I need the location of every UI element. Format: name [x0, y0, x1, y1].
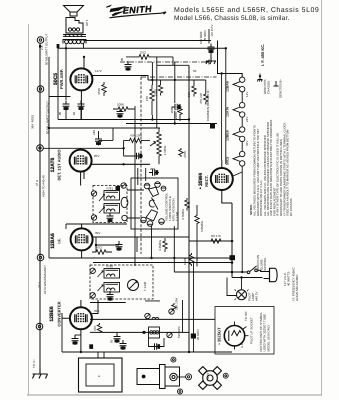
- svg-text:85V: 85V: [94, 154, 99, 158]
- svg-text:.05 600V: .05 600V: [203, 30, 207, 42]
- converter plate box top: [90, 301, 160, 303]
- resistor row y106 horizontal: [113, 107, 135, 111]
- wire x152: [151, 62, 153, 120]
- legend ground chassis: [257, 74, 262, 82]
- diag arrow c: [98, 271, 104, 277]
- blob on power line: [230, 255, 236, 260]
- svg-text:250: 250: [150, 167, 155, 171]
- notes block: [249, 120, 293, 216]
- bottom page edge: [27, 394, 322, 396]
- svg-text:4.7MEG: 4.7MEG: [181, 208, 185, 220]
- wire x123 down: [124, 140, 138, 156]
- transformer core: [63, 35, 86, 37]
- resistor 47K right vertical: [195, 213, 199, 228]
- svg-text:Y781: Y781: [106, 187, 113, 191]
- pin lead 12BA6 right: [93, 236, 189, 238]
- svg-text:37 A: 37 A: [35, 180, 39, 186]
- mounting screw a: [171, 357, 176, 362]
- svg-text:24V: 24V: [245, 117, 249, 122]
- resistor 150 vertical: [150, 85, 154, 115]
- pin lead 12BE6 left: [62, 313, 70, 318]
- svg-text:12BE6: 12BE6: [226, 130, 230, 141]
- pilot lamp: [235, 290, 249, 301]
- wire loop stub: [98, 352, 104, 358]
- svg-text:2D 117V: 2D 117V: [210, 25, 214, 36]
- resistor on B+ riser: [189, 253, 193, 266]
- junction osc: [142, 331, 145, 334]
- svg-text:100K: 100K: [117, 103, 124, 107]
- junction y148: [122, 147, 124, 149]
- wire y266: [93, 262, 232, 264]
- resistor 3.3meg vertical: [163, 238, 167, 252]
- wire fil feed: [222, 74, 243, 78]
- capacitor osc a: [114, 333, 121, 343]
- shield can: [121, 197, 128, 207]
- resistor B+ horizontal: [211, 239, 221, 243]
- pin lead 50C5 top: [83, 57, 85, 69]
- svg-text:50C5: 50C5: [226, 157, 230, 165]
- wire y96: [49, 96, 70, 98]
- svg-text:T-1340: T-1340: [143, 281, 147, 291]
- svg-text:22K 10%: 22K 10%: [175, 297, 179, 310]
- capacitor osc b: [151, 343, 161, 349]
- svg-text:470K: 470K: [183, 151, 187, 158]
- pin lead 50C5 bottom: [80, 90, 82, 119]
- trimmer tune a: [145, 313, 150, 318]
- wire bottom bus second: [126, 123, 217, 125]
- tube 12BE6: [70, 307, 92, 329]
- wire cap to gnd: [210, 54, 212, 59]
- ground top right: [206, 58, 216, 64]
- resistor 4.7K vertical: [158, 80, 162, 96]
- svg-text:384 400Ω: 384 400Ω: [31, 114, 35, 129]
- pin lead 12BE6 bottom: [80, 330, 82, 352]
- resistor 4.7meg vertical: [185, 198, 189, 211]
- note text in box: [259, 312, 270, 352]
- svg-text:40 WATTS: 40 WATTS: [287, 272, 291, 286]
- speaker: [64, 6, 84, 17]
- svg-text:12AT6: 12AT6: [50, 157, 56, 172]
- svg-text:TO 4 •: TO 4 •: [32, 360, 36, 369]
- tube socket 35Z5GT: [224, 326, 244, 346]
- wire x174 lower: [173, 226, 175, 272]
- resistor 47K horizontal: [124, 138, 150, 142]
- wire screw link: [177, 376, 185, 378]
- terminal phono: [37, 145, 44, 152]
- wire x137 down: [138, 168, 146, 185]
- volume control wedges: [146, 187, 159, 221]
- dash-dot line AVC: [141, 76, 217, 78]
- svg-text:117V: 117V: [95, 69, 102, 73]
- wire can to pot: [127, 190, 144, 218]
- volume control C curve: [149, 200, 154, 207]
- resistor 27 ohm: [126, 55, 173, 60]
- svg-text:150: 150: [145, 96, 149, 101]
- wire x182: [182, 300, 184, 332]
- mounting screw b: [178, 389, 183, 394]
- svg-text:DET. 1ST AUDIO: DET. 1ST AUDIO: [57, 150, 62, 181]
- wire y80: [148, 79, 206, 81]
- svg-text:Models L565E and L565R, Chassi: Models L565E and L565R, Chassis 5L09: [174, 6, 319, 14]
- junction y164: [122, 163, 124, 165]
- svg-text:PILOT: PILOT: [206, 372, 210, 381]
- coil T1 secondary: [104, 283, 120, 293]
- wire terminal 148 row: [43, 147, 123, 149]
- wire y65: [157, 57, 189, 65]
- svg-text:12BA6: 12BA6: [50, 233, 56, 249]
- svg-text:27Ω: 27Ω: [140, 51, 146, 55]
- trimmer T2 bottom: [91, 215, 96, 220]
- wire x62: [61, 318, 63, 352]
- svg-text:100 MMF: 100 MMF: [199, 31, 203, 44]
- svg-text:DENOTES B−: DENOTES B−: [279, 79, 283, 98]
- svg-text:50 MIL/WATT OUTPUT: 50 MIL/WATT OUTPUT: [45, 34, 49, 65]
- pin lead 35W4 top: [221, 160, 223, 168]
- trimmer T1 a: [90, 268, 95, 273]
- svg-text:PILOT LP. SOCKET: PILOT LP. SOCKET: [250, 317, 254, 344]
- power vertical wire: [231, 203, 233, 278]
- label 35W4 RECT.: [198, 173, 209, 189]
- terminal output hi: [37, 37, 44, 44]
- filament chain: [233, 77, 245, 272]
- resistor 15K vertical: [192, 80, 196, 97]
- wire x83 speaker lead: [83, 44, 85, 49]
- wire x174: [174, 62, 176, 124]
- svg-text:• 35Z5GT: • 35Z5GT: [217, 327, 222, 345]
- IF can T2 dashed box: [93, 186, 127, 223]
- pin lead 12AT6 bottom: [81, 170, 84, 186]
- svg-text:#184 TO #40-40: #184 TO #40-40: [42, 175, 46, 197]
- svg-text:CHASSIS: CHASSIS: [267, 81, 271, 94]
- junction x49 y128: [48, 127, 50, 129]
- capacitor osc c: [120, 340, 127, 350]
- capacitor output 1: [63, 101, 70, 111]
- svg-text:47Ω: 47Ω: [96, 246, 102, 250]
- volume control resistor: [150, 128, 161, 164]
- electrolytic blob 2: [191, 334, 196, 339]
- trimmer osc pad: [167, 332, 172, 337]
- junction dots bus: [151, 118, 153, 120]
- svg-text:1000: 1000: [183, 258, 187, 265]
- junction dots y352: [80, 351, 82, 353]
- wire x157: [156, 57, 158, 128]
- title text: [174, 6, 319, 22]
- capacitor line cap: [208, 44, 215, 54]
- filament squiggle: [229, 331, 241, 342]
- loop antenna outer: [79, 358, 123, 392]
- volume control assembly screws: [141, 182, 166, 227]
- resistor 470K vertical: [102, 82, 106, 96]
- wire x217 down: [218, 41, 222, 74]
- svg-text:Y780: Y780: [106, 265, 113, 269]
- svg-text:47K: 47K: [93, 326, 97, 331]
- svg-text:99V: 99V: [95, 231, 100, 235]
- svg-text:Model L566, Chassis 5L08, is s: Model L566, Chassis 5L08, is similar.: [174, 15, 290, 22]
- wire x193: [193, 263, 195, 353]
- capacitor x155 y246: [151, 226, 153, 258]
- 35Z5GT note box: [215, 307, 274, 355]
- svg-text:56: 56: [110, 339, 114, 343]
- wire x49 bus: [48, 57, 50, 258]
- wire x197: [196, 205, 198, 267]
- pin lead 12AT6 right: [91, 163, 150, 165]
- AC plug: [264, 268, 278, 281]
- mounting screw c: [186, 374, 192, 380]
- svg-text:3.3MEG: 3.3MEG: [158, 239, 162, 251]
- wire 47K top link: [205, 80, 207, 92]
- svg-text:12BE6: 12BE6: [49, 306, 55, 322]
- bottom bus y352: [62, 351, 232, 353]
- trimmer T1 b: [90, 293, 95, 298]
- bead on terminal lead: [39, 45, 41, 48]
- capacitor T2: [107, 213, 114, 223]
- svg-text:PWR.AMP.: PWR.AMP.: [59, 69, 64, 89]
- svg-text:TO INT.: TO INT.: [244, 311, 248, 321]
- osc transformer circle: [128, 280, 139, 291]
- tube 50C5: [70, 68, 92, 90]
- left page edge: [28, 24, 30, 395]
- svg-text:OF CHASSIS: OF CHASSIS: [289, 198, 293, 216]
- tube 12BA6: [71, 228, 93, 250]
- svg-text:I. F. 455 KC.: I. F. 455 KC.: [260, 44, 265, 66]
- bead at line start: [57, 44, 60, 48]
- resistor y252 horizontal: [92, 250, 112, 254]
- svg-text:COMMON RETURN B−: COMMON RETURN B−: [206, 89, 210, 121]
- coil T2 secondary: [104, 204, 120, 214]
- svg-text:CONTROL: CONTROL: [263, 257, 267, 272]
- wire x135: [134, 106, 136, 266]
- socket screw: [223, 373, 228, 378]
- terminal wavemagnet: [37, 254, 44, 261]
- capacitor T1: [107, 291, 114, 301]
- junction dots top: [83, 56, 85, 58]
- wire y128: [49, 127, 160, 129]
- coil T1 primary: [104, 269, 120, 279]
- legend B minus: [274, 81, 279, 86]
- svg-text:36V: 36V: [245, 141, 249, 146]
- svg-text:470K: 470K: [97, 88, 101, 95]
- wire B+ rect out: [189, 240, 232, 242]
- output transformer: [66, 18, 83, 34]
- label 12BE6 CONVERTER: [49, 301, 62, 326]
- tube 35W4 rectifier: [211, 168, 233, 190]
- diag arrow a: [99, 194, 105, 201]
- wire x209 top stub: [208, 29, 210, 44]
- svg-text:12AT6: 12AT6: [226, 107, 230, 117]
- svg-text:.05: .05: [120, 57, 124, 62]
- tuning row wire: [90, 318, 215, 320]
- capacitor y257: [116, 241, 123, 251]
- capacitor audio: [172, 104, 182, 110]
- trimmer det: [121, 183, 126, 188]
- svg-text:12BA6: 12BA6: [226, 81, 230, 92]
- capacitor x128 y66: [125, 61, 132, 71]
- capacitor 12BE6 cathode: [75, 334, 81, 336]
- svg-text:MODEL L566 ONLY: MODEL L566 ONLY: [266, 325, 270, 352]
- wire switch row: [174, 272, 262, 278]
- svg-text:#37A WAVEMAGNET: #37A WAVEMAGNET: [43, 265, 47, 294]
- wire B+ top: [84, 40, 211, 42]
- wire 50C5 stage bottom bus: [58, 119, 190, 121]
- osc circle arrow: [129, 281, 137, 290]
- osc row wire: [90, 331, 189, 333]
- trimmer tune b: [169, 309, 174, 314]
- svg-text:RECT.: RECT.: [204, 175, 209, 187]
- pin lead 35W4 bottom: [222, 190, 232, 203]
- svg-text:2700: 2700: [154, 89, 158, 96]
- svg-text:47K 2W: 47K 2W: [199, 93, 203, 104]
- blob T2 top: [116, 186, 121, 190]
- svg-text:R6 47K: R6 47K: [211, 234, 221, 238]
- dash-dot line top: [120, 61, 205, 63]
- svg-text:12V: 12V: [245, 92, 249, 97]
- diag arrow b: [99, 207, 105, 213]
- pin lead 12BA6 top: [81, 224, 83, 228]
- diag arrow d: [98, 285, 104, 291]
- right page edge: [321, 0, 323, 395]
- socket pin stubs: [235, 322, 249, 350]
- junction circle T2: [122, 215, 127, 220]
- resistor 22K vertical: [172, 303, 176, 311]
- svg-text:240: 240: [92, 130, 96, 135]
- primary winding: [63, 40, 86, 44]
- junction dot: [220, 72, 222, 74]
- IF can T1 dashed box: [90, 265, 153, 299]
- wire x225: [225, 48, 227, 164]
- wire pilot: [241, 278, 243, 290]
- svg-text:6.8MEG: 6.8MEG: [200, 220, 204, 232]
- switch on volume control: [247, 266, 257, 274]
- svg-text:99V: 99V: [94, 309, 99, 313]
- label 50C5 PWR.AMP: [53, 69, 64, 89]
- wire switch to plug: [257, 270, 263, 271]
- ground mid top: [205, 60, 209, 65]
- wire caps to bus: [66, 111, 81, 120]
- electrolytic blob: [210, 124, 215, 129]
- tube socket wafer: [199, 367, 222, 390]
- resistor 47K vertical: [204, 92, 208, 105]
- label 12AT6 DET. 1ST AUDIO: [50, 150, 62, 181]
- svg-text:.02: .02: [72, 111, 76, 116]
- wire y258: [49, 257, 232, 259]
- pin lead 12BE6 right: [92, 300, 98, 314]
- svg-text:ALIGN 540-1620KC: ALIGN 540-1620KC: [295, 273, 299, 301]
- svg-text:A.C.: A.C.: [240, 342, 244, 348]
- svg-text:I.F.: I.F.: [57, 238, 62, 243]
- inductor on line: [152, 317, 159, 319]
- svg-text:50: 50: [193, 69, 197, 73]
- terminal antenna: [36, 323, 43, 330]
- capacitor on y172: [149, 169, 159, 175]
- resistor 47 vertical: [97, 323, 101, 332]
- dashed AVC vertical: [140, 77, 142, 254]
- wire y224: [66, 224, 127, 229]
- pin lead 50C5 plate: [92, 76, 148, 81]
- coil T2 primary: [104, 191, 120, 201]
- svg-text:510 10%: 510 10%: [177, 326, 181, 338]
- svg-text:#40 2V: #40 2V: [255, 291, 259, 301]
- svg-text:.05: .05: [58, 111, 62, 116]
- wire cap up: [99, 128, 114, 140]
- wire x221 down: [221, 74, 223, 161]
- tube 12AT6: [70, 150, 92, 172]
- svg-text:1 MEG: 1 MEG: [163, 145, 167, 155]
- svg-text:20 MFD: 20 MFD: [196, 328, 200, 340]
- pin lead 12BA6 bottom: [81, 250, 83, 258]
- wire x189 long: [188, 65, 190, 352]
- svg-text:T-1340: T-1340: [175, 211, 179, 221]
- wire x66 speaker lead: [65, 44, 67, 101]
- svg-text:SP 1: SP 1: [85, 19, 89, 26]
- volume assembly box: [131, 178, 178, 229]
- gang condenser assembly: [137, 365, 180, 389]
- wire pilot left: [227, 278, 237, 296]
- loop antenna inner: [86, 364, 114, 386]
- resistor 1 meg vertical: [178, 104, 182, 121]
- osc feedback box: [149, 338, 165, 347]
- capacitor det: [133, 153, 143, 159]
- trimmer T2 top: [91, 191, 96, 196]
- osc coil box: [149, 327, 160, 338]
- wire top second: [58, 47, 227, 49]
- svg-text:CONVERTER: CONVERTER: [57, 301, 62, 326]
- capacitor output 2: [78, 101, 85, 111]
- label 12BA6 I.F.: [50, 233, 62, 249]
- terminal output lo: [37, 86, 44, 93]
- resistor 470K det vertical: [179, 148, 183, 157]
- capacitor 12AT6 grid: [95, 136, 102, 146]
- pin lead 12AT6 top: [80, 148, 82, 149]
- junction power: [231, 261, 234, 264]
- pin lead 12BE6 top: [80, 300, 82, 307]
- ground chassis bottom left: [33, 368, 48, 379]
- Zenith logo: [106, 4, 166, 18]
- wire x58: [57, 48, 59, 119]
- capacitor x120 y113: [117, 108, 124, 118]
- wire left bus: [39, 43, 41, 368]
